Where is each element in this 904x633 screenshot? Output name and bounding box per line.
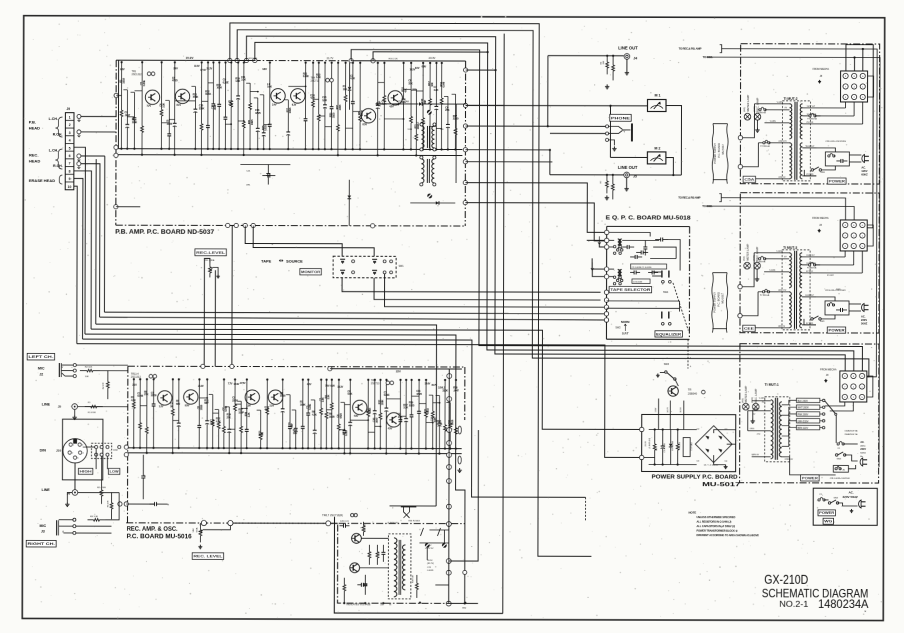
svg-text:6.5V: 6.5V [415, 67, 420, 70]
svg-text:10/16: 10/16 [288, 107, 292, 113]
svg-text:4.9V: 4.9V [354, 415, 359, 418]
svg-text:SW3: SW3 [664, 363, 670, 366]
svg-text:METER LAMP: METER LAMP [744, 386, 748, 403]
svg-text:47/25: 47/25 [172, 78, 178, 82]
svg-text:5.6K: 5.6K [267, 85, 272, 89]
svg-text:A: A [62, 529, 64, 533]
svg-text:TR: TR [688, 388, 692, 392]
svg-text:2.1V: 2.1V [132, 384, 137, 387]
svg-text:2SC713: 2SC713 [311, 80, 320, 83]
svg-text:P.B.: P.B. [29, 119, 36, 124]
svg-text:8Ω: 8Ω [440, 129, 443, 131]
svg-text:LINE OUT: LINE OUT [618, 165, 638, 170]
svg-text:MU-5017: MU-5017 [702, 482, 740, 488]
svg-text:23.3V: 23.3V [645, 441, 647, 447]
svg-text:FROM MECHA: FROM MECHA [813, 68, 830, 71]
svg-text:7.7V: 7.7V [147, 105, 152, 108]
svg-text:C3 0.0033: C3 0.0033 [633, 281, 643, 283]
svg-text:2.4V: 2.4V [272, 103, 277, 106]
svg-text:240V: 240V [860, 448, 866, 451]
svg-text:132V: 132V [655, 407, 657, 412]
svg-text:V: V [623, 129, 625, 133]
svg-text:15.9V: 15.9V [186, 56, 194, 60]
svg-text:WG: WG [824, 520, 833, 524]
svg-text:7: 7 [69, 162, 71, 166]
svg-text:100V GRN: 100V GRN [806, 263, 816, 265]
svg-text:10/25: 10/25 [409, 403, 415, 407]
svg-text:P.C. BOARD: P.C. BOARD [717, 292, 721, 307]
svg-text:BLK 240V: BLK 240V [797, 401, 808, 403]
svg-text:10/16: 10/16 [450, 419, 454, 425]
svg-text:7.5V: 7.5V [325, 385, 330, 388]
svg-text:J2: J2 [39, 372, 43, 376]
svg-text:J3: J3 [41, 529, 45, 533]
svg-text:SW1: SW1 [399, 266, 405, 268]
svg-text:6: 6 [69, 154, 71, 158]
svg-text:R3 3.3K: R3 3.3K [90, 516, 98, 518]
svg-text:8: 8 [69, 169, 71, 173]
svg-text:DIFERENT ACCORDING TO AREA SHO: DIFERENT ACCORDING TO AREA SHOWN AS ABOV… [696, 533, 759, 537]
svg-text:.0047: .0047 [213, 104, 217, 110]
svg-text:27K: 27K [144, 392, 148, 396]
svg-text:0.048: 0.048 [224, 405, 228, 411]
svg-text:110V VLT: 110V VLT [806, 255, 815, 257]
svg-text:4.3K: 4.3K [434, 88, 439, 92]
svg-text:Ti MUT-2: Ti MUT-2 [784, 97, 798, 101]
svg-text:9.8V: 9.8V [120, 68, 125, 71]
svg-text:HEAD: HEAD [29, 158, 40, 163]
svg-text:CRI 0.0033+100/250V: CRI 0.0033+100/250V [830, 478, 851, 480]
svg-text:10K: 10K [293, 431, 297, 435]
svg-text:(NO): (NO) [744, 256, 746, 261]
svg-text:R33 12K: R33 12K [364, 523, 366, 531]
svg-text:470K: 470K [437, 422, 443, 426]
svg-text:200A/250V 1A: 200A/250V 1A [845, 433, 859, 436]
svg-text:MONITOR: MONITOR [301, 270, 320, 274]
svg-text:27K: 27K [445, 108, 449, 112]
svg-text:33K: 33K [408, 81, 412, 85]
svg-text:MU-5017: MU-5017 [721, 143, 725, 154]
svg-text:Y-GRN: Y-GRN [777, 102, 784, 104]
svg-text:F4 800mA: F4 800mA [807, 266, 817, 269]
svg-text:0V BLK: 0V BLK [806, 122, 813, 124]
svg-text:0.20E: 0.20E [308, 404, 312, 410]
svg-text:10/25: 10/25 [331, 112, 335, 118]
svg-text:R36 IN 5803: R36 IN 5803 [408, 520, 420, 522]
svg-text:13.3V: 13.3V [337, 386, 343, 389]
svg-text:J10: J10 [56, 449, 61, 453]
svg-text:MIC: MIC [39, 524, 46, 528]
svg-text:C2 0.0036 C1 0.0036: C2 0.0036 C1 0.0036 [632, 267, 653, 269]
svg-text:POWER: POWER [802, 476, 819, 480]
svg-text:8.1V: 8.1V [177, 104, 182, 107]
svg-text:RIGHT CH.: RIGHT CH. [27, 542, 55, 546]
svg-text:22/50: 22/50 [232, 398, 238, 402]
svg-text:M 1: M 1 [655, 93, 661, 97]
svg-text:17.5V: 17.5V [240, 382, 246, 385]
svg-text:LINE: LINE [42, 402, 51, 406]
svg-text:4.3K: 4.3K [216, 419, 221, 423]
svg-text:100P: 100P [238, 410, 244, 414]
svg-text:3.3K: 3.3K [322, 98, 327, 102]
svg-text:R.CH.: R.CH. [53, 164, 63, 168]
svg-text:UNLESS OTHERWISE SPECIFIED: UNLESS OTHERWISE SPECIFIED [697, 515, 736, 519]
svg-text:0V BLK: 0V BLK [806, 271, 813, 273]
svg-text:.0047: .0047 [453, 389, 459, 393]
svg-text:83.5V: 83.5V [427, 560, 433, 562]
svg-text:C5A: C5A [744, 178, 755, 182]
svg-text:47/25: 47/25 [338, 104, 342, 110]
svg-text:(3.3V)(6.4V): (3.3V)(6.4V) [387, 522, 398, 524]
svg-text:TR6,7 2SC713(R): TR6,7 2SC713(R) [322, 513, 343, 517]
svg-text:GRN: GRN [753, 409, 758, 411]
svg-text:4.2V: 4.2V [307, 383, 312, 386]
svg-text:2.6V: 2.6V [173, 67, 178, 70]
svg-text:BRN 0V: BRN 0V [752, 454, 760, 456]
svg-text:×: × [864, 610, 866, 614]
svg-text:330K: 330K [442, 388, 448, 392]
svg-text:R1 470R: R1 470R [88, 412, 96, 414]
svg-text:Y-GRN: Y-GRN [759, 398, 766, 400]
svg-text:LOW: LOW [110, 470, 119, 474]
svg-text:1.2V: 1.2V [159, 405, 164, 408]
svg-text:POWER: POWER [829, 179, 846, 183]
svg-text:(NO2): (NO2) [752, 397, 754, 403]
svg-text:R16 2.2K: R16 2.2K [389, 58, 399, 60]
svg-text:AC.: AC. [861, 165, 866, 169]
svg-text:0.033: 0.033 [426, 408, 430, 414]
svg-text:TAPE: TAPE [261, 259, 272, 264]
svg-text:2SC1312: 2SC1312 [132, 73, 143, 76]
svg-text:SOURCE: SOURCE [286, 259, 303, 264]
svg-text:12.9V: 12.9V [234, 383, 240, 386]
svg-text:0.C57.5V: 0.C57.5V [425, 548, 434, 550]
svg-text:LINE OUT: LINE OUT [618, 45, 638, 50]
svg-text:ORG: ORG [750, 428, 755, 430]
svg-text:9.3V: 9.3V [292, 103, 297, 106]
svg-text:10: 10 [68, 185, 72, 189]
svg-text:S.P.T: S.P.T [622, 331, 629, 335]
svg-text:22V: 22V [396, 369, 401, 373]
svg-text:R13 18K: R13 18K [249, 58, 258, 60]
svg-text:Ti MUT-1: Ti MUT-1 [765, 383, 779, 387]
svg-text:POWER SUPPLY P.C. BOARD: POWER SUPPLY P.C. BOARD [652, 474, 738, 480]
svg-text:2.5V: 2.5V [269, 405, 274, 408]
svg-text:R38 53K: R38 53K [412, 574, 414, 582]
svg-text:6.9V: 6.9V [330, 385, 335, 388]
svg-text:68P: 68P [423, 100, 427, 104]
svg-text:100K: 100K [216, 86, 222, 90]
svg-text:Y-GRN: Y-GRN [776, 251, 783, 253]
svg-text:AC.: AC. [860, 441, 864, 444]
svg-text:22/50: 22/50 [151, 393, 157, 397]
svg-text:DM2: DM2 [113, 450, 118, 452]
svg-text:F3 800mA: F3 800mA [756, 111, 766, 114]
svg-text:8.5V: 8.5V [362, 123, 367, 126]
svg-text:ORL 27V: ORL 27V [778, 141, 787, 143]
svg-text:NO.2-1: NO.2-1 [779, 599, 808, 609]
svg-text:1.6K: 1.6K [235, 79, 240, 83]
svg-text:J9: J9 [66, 107, 70, 111]
svg-text:47/25: 47/25 [339, 413, 343, 419]
svg-text:LINE: LINE [42, 488, 51, 492]
svg-text:21.2V: 21.2V [207, 67, 213, 70]
svg-text:4.5V: 4.5V [388, 427, 393, 430]
svg-text:100V GRN: 100V GRN [806, 114, 816, 116]
svg-text:17.4V: 17.4V [200, 69, 206, 72]
svg-text:LEFT CH.: LEFT CH. [28, 355, 53, 359]
svg-text:L.CH.: L.CH. [49, 117, 58, 121]
svg-text:0.048: 0.048 [137, 394, 143, 398]
svg-text:27K: 27K [227, 415, 231, 419]
svg-text:GRN 220V: GRN 220V [797, 421, 809, 423]
svg-text:EQUALIZER: EQUALIZER [656, 332, 682, 336]
svg-text:R4 27K: R4 27K [103, 382, 105, 389]
svg-text:.0047: .0047 [125, 113, 131, 117]
svg-text:3.8Ω: 3.8Ω [407, 129, 412, 131]
svg-text:10K: 10K [343, 87, 347, 91]
svg-text:4: 4 [69, 139, 71, 143]
svg-text:5.6K: 5.6K [347, 392, 352, 396]
svg-text:3.3K: 3.3K [161, 103, 165, 108]
svg-text:SW1: SW1 [663, 291, 669, 294]
svg-text:F1 INT: F1 INT [827, 275, 834, 277]
svg-text:0.20E: 0.20E [142, 80, 146, 86]
svg-text:100K: 100K [300, 402, 306, 406]
svg-text:220V: 220V [861, 318, 867, 322]
svg-text:2SB540: 2SB540 [688, 391, 698, 395]
svg-text:6.9V: 6.9V [422, 66, 427, 69]
svg-text:C3 470/35: C3 470/35 [664, 442, 666, 452]
svg-text:100V FLP: 100V FLP [805, 146, 815, 148]
svg-text:P.C. BOARD MU-5016: P.C. BOARD MU-5016 [127, 534, 193, 540]
svg-text:F3 800mA: F3 800mA [756, 260, 766, 263]
svg-text:3.3K: 3.3K [403, 405, 408, 409]
svg-text:30.5V: 30.5V [680, 407, 682, 413]
svg-text:V: V [61, 365, 63, 369]
svg-text:D1 IN34A: D1 IN34A [399, 100, 410, 103]
svg-text:T-GRN: T-GRN [769, 121, 776, 123]
svg-text:ORL 0V: ORL 0V [778, 177, 786, 179]
svg-text:F4 800mA: F4 800mA [807, 117, 817, 120]
svg-text:REC. AMP. & OSC.: REC. AMP. & OSC. [127, 527, 178, 533]
svg-text:100A/250V 6A: 100A/250V 6A [845, 429, 859, 432]
svg-text:FROM MECHA: FROM MECHA [820, 368, 837, 371]
svg-text:P.B. AMP. P.C. BOARD ND-5037: P.B. AMP. P.C. BOARD ND-5037 [115, 229, 215, 236]
svg-text:9: 9 [69, 177, 71, 181]
svg-text:4.7K: 4.7K [228, 102, 233, 106]
svg-text:TAPE SELECTOR: TAPE SELECTOR [610, 288, 651, 292]
svg-text:0.033: 0.033 [264, 125, 268, 131]
svg-text:21.7V: 21.7V [327, 56, 334, 60]
svg-text:10K: 10K [85, 376, 89, 378]
svg-text:DIN: DIN [40, 448, 47, 452]
svg-text:R2 10K: R2 10K [85, 367, 93, 369]
svg-text:Hz: Hz [860, 456, 863, 458]
svg-text:METER LAMP: METER LAMP [746, 95, 750, 112]
svg-text:2.2K: 2.2K [247, 412, 251, 417]
svg-text:10K: 10K [210, 421, 214, 425]
svg-text:1480234A: 1480234A [818, 597, 869, 611]
svg-text:110V VLT: 110V VLT [807, 106, 816, 108]
svg-text:220V 50HZ: 220V 50HZ [843, 495, 858, 499]
svg-text:ORL 27V: ORL 27V [778, 290, 787, 292]
svg-text:POWER: POWER [819, 511, 835, 515]
svg-text:47K: 47K [264, 408, 268, 412]
svg-text:68P: 68P [204, 401, 208, 405]
svg-text:68Ω: 68Ω [462, 608, 466, 610]
svg-text:CRI 0.033+120/125WV: CRI 0.033+120/125WV [825, 141, 846, 143]
svg-text:C1 FLAG: C1 FLAG [690, 442, 693, 451]
svg-text:7.7V: 7.7V [228, 382, 233, 385]
svg-text:(NO): (NO) [742, 398, 744, 403]
svg-text:3: 3 [69, 131, 71, 135]
svg-text:T-GRN: T-GRN [769, 270, 776, 272]
svg-text:ALL RESISTORS IN Ω 1/4W (J): ALL RESISTORS IN Ω 1/4W (J) [696, 519, 731, 523]
svg-text:24.7V: 24.7V [667, 407, 669, 413]
svg-text:4.3K: 4.3K [131, 398, 136, 402]
svg-text:P.C. BOARD: P.C. BOARD [717, 143, 721, 158]
svg-text:20k: 20k [380, 604, 383, 606]
svg-text:10/16: 10/16 [205, 92, 211, 96]
svg-text:ERASE HEAD: ERASE HEAD [29, 178, 55, 183]
svg-text:R2 100: R2 100 [679, 441, 681, 448]
svg-text:2SC713: 2SC713 [371, 382, 380, 385]
svg-text:CEE: CEE [744, 327, 755, 331]
svg-text:M 2: M 2 [654, 146, 660, 150]
svg-text:68P: 68P [290, 423, 294, 427]
svg-text:BRN 110V: BRN 110V [797, 428, 808, 430]
svg-text:ORL 0V: ORL 0V [778, 326, 786, 328]
svg-text:100K: 100K [380, 399, 384, 405]
svg-text:3.3K: 3.3K [241, 78, 246, 82]
svg-text:14.6V: 14.6V [425, 383, 431, 386]
svg-text:REC-LEVEL: REC-LEVEL [196, 250, 226, 255]
svg-text:SW2: SW2 [615, 326, 621, 329]
svg-text:NORM: NORM [621, 320, 630, 324]
svg-text:0.20E: 0.20E [303, 74, 309, 78]
svg-text:ALL CAPACITORS IN µF 50WV (J): ALL CAPACITORS IN µF 50WV (J) [696, 524, 735, 528]
svg-text:D5 WZ240: D5 WZ240 [672, 440, 674, 450]
svg-text:4.7K: 4.7K [312, 413, 317, 417]
svg-text:4.3K: 4.3K [350, 76, 355, 80]
svg-text:120V: 120V [861, 169, 867, 173]
svg-text:23.3V: 23.3V [429, 56, 436, 60]
svg-text:10/25: 10/25 [250, 119, 254, 125]
svg-text:0.0039: 0.0039 [427, 570, 434, 572]
svg-text:50/60: 50/60 [860, 452, 866, 454]
svg-text:TO REC.& P.B AMP: TO REC.& P.B AMP [678, 196, 700, 200]
svg-text:J4: J4 [633, 56, 637, 60]
svg-text:0.048: 0.048 [442, 81, 446, 87]
svg-text:AC.: AC. [861, 314, 866, 318]
svg-text:PHONE: PHONE [611, 115, 630, 120]
svg-text:INDICATES VOLTAGE: INDICATES VOLTAGE [346, 603, 371, 606]
svg-text:POWER TRANSFORMER BLOCK ⑤: POWER TRANSFORMER BLOCK ⑤ [696, 528, 738, 532]
svg-text:50HZ: 50HZ [861, 321, 868, 325]
svg-text:PNK 200V: PNK 200V [797, 414, 808, 416]
svg-text:47/25: 47/25 [416, 392, 422, 396]
svg-text:500A: 500A [195, 527, 198, 532]
svg-text:2: 2 [69, 123, 71, 127]
svg-text:10/16: 10/16 [368, 407, 372, 413]
svg-text:3.3K: 3.3K [326, 394, 330, 399]
svg-text:9.5V: 9.5V [185, 404, 190, 407]
svg-text:L.CH.: L.CH. [49, 149, 58, 153]
svg-text:R5 27K: R5 27K [108, 500, 110, 507]
svg-text:METER LAMP: METER LAMP [746, 244, 750, 261]
svg-text:0.20E: 0.20E [223, 80, 229, 84]
svg-text:47/25: 47/25 [255, 111, 261, 115]
svg-text:F2 800mA: F2 800mA [760, 294, 770, 297]
svg-text:1.8V: 1.8V [246, 405, 251, 408]
svg-text:330K: 330K [199, 106, 205, 110]
svg-text:5525: 5525 [420, 122, 426, 124]
svg-text:10/16: 10/16 [121, 77, 125, 83]
svg-text:REC. LEVEL: REC. LEVEL [193, 555, 223, 559]
svg-text:HEAD: HEAD [29, 125, 40, 130]
svg-text:10/25: 10/25 [329, 415, 335, 419]
svg-text:GX-210D: GX-210D [764, 573, 808, 587]
svg-text:MU-5017: MU-5017 [721, 292, 725, 303]
svg-text:60HZ: 60HZ [861, 172, 868, 176]
svg-text:1K: 1K [170, 404, 173, 408]
svg-text:MIC: MIC [38, 366, 45, 370]
svg-text:11.5V: 11.5V [194, 65, 200, 68]
svg-text:FROM MECHA: FROM MECHA [812, 217, 829, 220]
svg-text:WHT 200V: WHT 200V [797, 408, 809, 410]
svg-text:(3.8V25.2V): (3.8V25.2V) [649, 437, 651, 448]
svg-text:HIGH: HIGH [80, 470, 93, 474]
svg-text:470K: 470K [193, 95, 199, 99]
svg-text:POWER: POWER [828, 328, 845, 332]
svg-text:F2 800mA: F2 800mA [760, 145, 770, 148]
svg-text:C26 0.01: C26 0.01 [340, 521, 350, 523]
svg-text:TO REC.& P.B. AMP: TO REC.& P.B. AMP [679, 47, 702, 51]
svg-text:0.20E: 0.20E [384, 393, 390, 397]
svg-text:47K: 47K [403, 88, 407, 92]
svg-text:4.5V: 4.5V [389, 105, 394, 108]
svg-text:6.8V: 6.8V [262, 68, 267, 71]
svg-text:15.7V: 15.7V [431, 384, 437, 387]
svg-text:21.9V: 21.9V [198, 385, 204, 388]
svg-text:NOTE: NOTE [689, 510, 697, 514]
svg-text:10/16: 10/16 [199, 404, 203, 410]
svg-text:(89.7V): (89.7V) [427, 563, 434, 565]
svg-text:RED 0V: RED 0V [786, 459, 794, 461]
svg-text:Ti MUT-3: Ti MUT-3 [783, 246, 797, 250]
svg-text:1: 1 [69, 116, 71, 120]
svg-text:100V FLP: 100V FLP [805, 295, 815, 297]
svg-text:.0047: .0047 [375, 417, 379, 423]
svg-text:0.033: 0.033 [344, 430, 348, 436]
svg-text:100K: 100K [132, 120, 138, 124]
svg-text:REC.: REC. [29, 152, 39, 157]
svg-text:J5: J5 [58, 405, 62, 409]
svg-text:R.CH.: R.CH. [53, 133, 63, 137]
svg-text:5: 5 [69, 146, 71, 150]
svg-text:E Q. P. C. BOARD MU-5018: E Q. P. C. BOARD MU-5018 [606, 215, 691, 221]
svg-text:(NO): (NO) [744, 107, 746, 112]
svg-text:10/25: 10/25 [166, 122, 172, 126]
